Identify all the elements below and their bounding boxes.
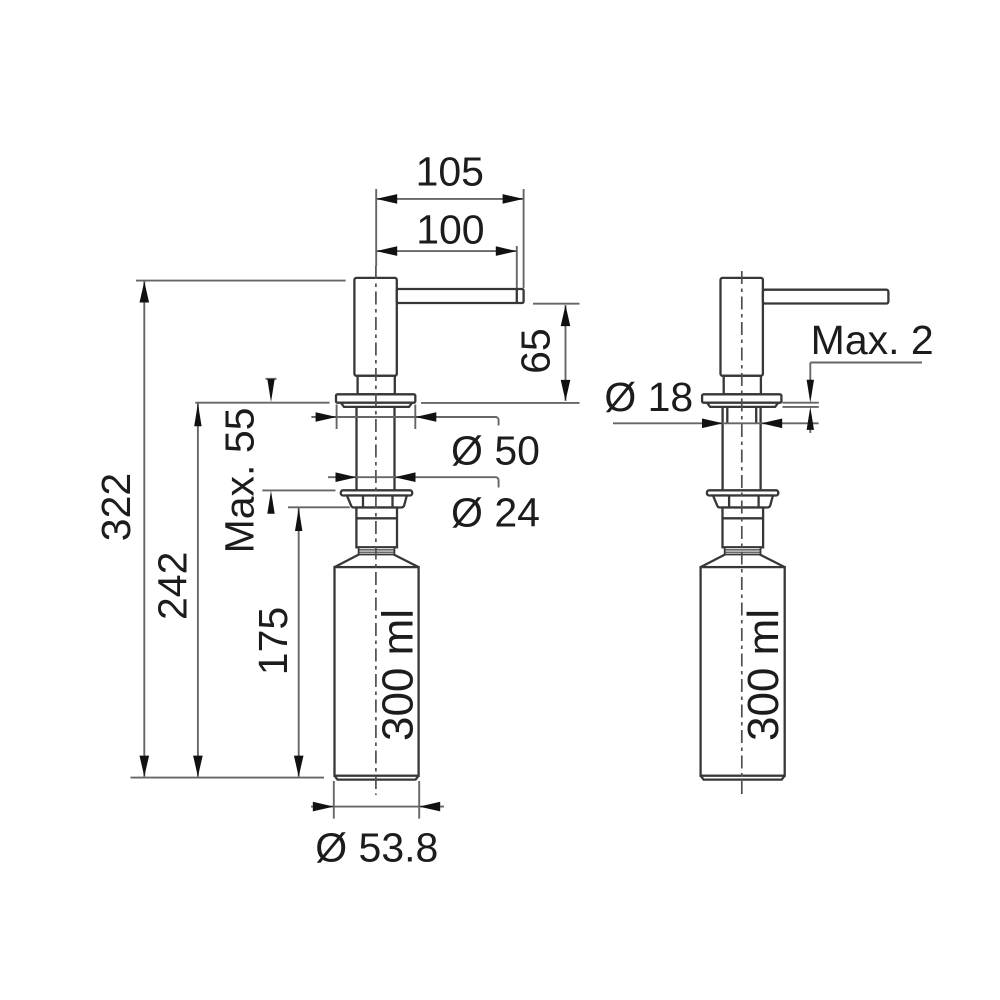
- top reference line (322): [136, 280, 346, 282]
- svg-text:Ø 18: Ø 18: [604, 374, 693, 420]
- svg-text:Ø 53.8: Ø 53.8: [315, 825, 438, 871]
- right view pump head: [721, 278, 763, 376]
- left view pump head: [354, 278, 396, 376]
- Ø50 extension lines: [337, 405, 416, 430]
- svg-text:300 ml: 300 ml: [374, 609, 423, 741]
- right view lock nut: [713, 496, 773, 508]
- dimension Max.2 leader: [810, 363, 922, 434]
- dimension 175 top reference line: [288, 506, 350, 508]
- dimension 322 arrows: [140, 282, 150, 303]
- right view lock washer: [707, 490, 778, 495]
- left view pump body joint line: [356, 517, 397, 519]
- right view pump body joint line: [723, 517, 764, 519]
- svg-text:175: 175: [250, 607, 296, 675]
- right view bottle: [701, 567, 785, 776]
- left view pump body: [356, 508, 397, 548]
- dimension Max.2 arrows: [807, 380, 814, 403]
- right view spout: [763, 290, 889, 304]
- dimension Ø53.8 line: [311, 806, 444, 808]
- dimension Ø53.8 arrows: [313, 802, 334, 812]
- Max. 55 top tick: [266, 378, 277, 380]
- svg-text:65: 65: [513, 328, 559, 374]
- right view bottle neck ridges: [725, 547, 761, 554]
- dimension Ø18 arrows: [702, 419, 723, 429]
- left view neck: [358, 376, 395, 395]
- dimension 242 arrows: [194, 403, 201, 426]
- dimension 242 line: [197, 403, 199, 776]
- extension line center axis: [375, 189, 377, 266]
- left view bottle: [335, 567, 419, 776]
- right view lock nut facets: [729, 496, 759, 508]
- Max.2 reference lines: [783, 403, 819, 407]
- dimension Ø24 arrows: [336, 472, 357, 482]
- extension line spout outer tip: [523, 189, 525, 288]
- svg-text:Max. 2: Max. 2: [811, 317, 934, 363]
- left view mounting flange: [336, 394, 415, 402]
- svg-text:300 ml: 300 ml: [739, 609, 788, 741]
- dimension 100 line: [376, 250, 517, 252]
- right view bottle base: [701, 776, 785, 780]
- left view centerline: [375, 266, 377, 795]
- svg-text:100: 100: [416, 207, 484, 253]
- left view threaded shank: [357, 407, 395, 490]
- dimension 65 line: [565, 305, 567, 401]
- right view flange washer: [707, 403, 778, 407]
- svg-text:242: 242: [150, 552, 196, 620]
- svg-text:Max. 55: Max. 55: [217, 408, 263, 554]
- left view lock washer: [341, 490, 412, 495]
- left view bottle neck ridges: [359, 547, 395, 554]
- right view mounting flange: [702, 394, 781, 402]
- left view lock nut facets: [363, 496, 393, 508]
- dimension 65 arrows: [561, 305, 571, 326]
- dimension 175 arrows: [295, 508, 302, 531]
- left view flange washer: [341, 403, 412, 407]
- right view threaded shank: [723, 407, 761, 490]
- Max. 55 bottom reference line: [262, 489, 335, 491]
- extension line spout nozzle: [516, 246, 518, 288]
- svg-text:105: 105: [416, 149, 484, 195]
- right view pump body: [723, 508, 764, 548]
- left view bottle base: [335, 776, 419, 780]
- dimension 175 line: [298, 508, 300, 777]
- svg-text:Ø 24: Ø 24: [451, 490, 540, 536]
- bottom reference line (322/242/175): [131, 777, 325, 779]
- dimension Ø50 leader line: [311, 417, 498, 426]
- dimension 105 line: [376, 198, 523, 200]
- dimension 100 arrows: [376, 246, 397, 256]
- right view bottle shoulder: [701, 555, 785, 568]
- right view shank collar: [727, 407, 756, 423]
- dimension Ø18 line: [613, 422, 819, 424]
- dimension 65 top reference line: [533, 303, 580, 305]
- right view neck: [724, 376, 761, 395]
- dimension Max.55 arrows: [267, 379, 274, 402]
- dimension Ø50 arrows: [316, 412, 337, 422]
- dimension Ø24 leader line: [328, 477, 499, 487]
- dimension 105 arrows: [376, 194, 397, 204]
- right view centerline: [741, 271, 743, 795]
- Ø53.8 extension lines: [334, 781, 419, 819]
- countertop reference line left of flange (242 / Max.55 top): [195, 402, 329, 404]
- left view bottle shoulder: [335, 555, 419, 568]
- dimension 322 line: [143, 282, 145, 777]
- left view spout nozzle line: [516, 289, 518, 303]
- countertop reference line right of flange: [421, 402, 580, 404]
- svg-text:322: 322: [93, 473, 139, 541]
- svg-text:Ø 50: Ø 50: [451, 428, 540, 474]
- left view lock nut: [347, 496, 407, 508]
- left view spout: [397, 289, 524, 303]
